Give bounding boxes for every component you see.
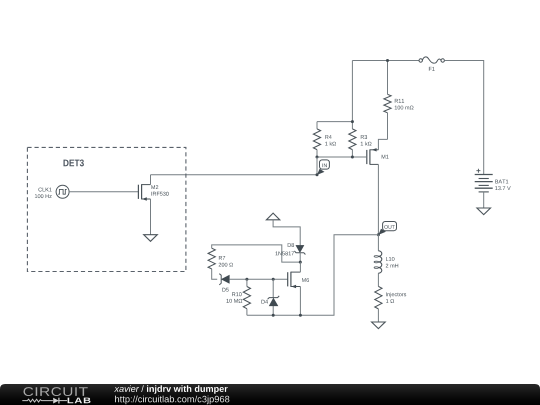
transistor M1 (PMOS): [367, 148, 379, 165]
label IRF530: [151, 192, 168, 196]
logo diode symbol: [53, 398, 59, 404]
logo text CIRCUIT: [24, 387, 88, 396]
node: D4 top: [272, 278, 275, 281]
label 1 kOhm (R3): [361, 142, 372, 146]
label Injectors: [386, 292, 406, 297]
label 1 Ohm: [386, 299, 394, 303]
label M6: [302, 278, 309, 282]
label R11: [395, 99, 404, 103]
wire: injectors to ground: [377, 309, 379, 322]
label M2: [151, 185, 158, 189]
diode D4 (zener): [268, 296, 280, 306]
label L10: [386, 257, 395, 261]
wire: R4/R3 bottom rail to M1 gate: [317, 156, 367, 158]
label 2 mH: [386, 264, 398, 268]
label IN: [323, 164, 327, 168]
wire: R7 bottom to D5: [212, 269, 218, 279]
resistor R11: [384, 94, 391, 113]
label R10: [232, 292, 241, 296]
diode D8 (1N5817 Schottky): [294, 245, 305, 254]
diode D4 leads: [272, 279, 274, 315]
transistor M6 (NMOS): [288, 272, 301, 289]
flag IN: [317, 160, 329, 175]
label R4: [325, 135, 331, 139]
node: OUT: [377, 233, 380, 236]
resistor R10 leads: [246, 279, 248, 315]
node: M6 source bottom: [299, 314, 302, 317]
label 1 kOhm (R4): [325, 142, 336, 146]
wire: M2 source down: [150, 199, 152, 235]
wire: power flag to D8 anode: [273, 220, 300, 246]
resistor R4: [313, 129, 320, 150]
label DET3: [64, 160, 84, 167]
node: D4 bottom: [272, 314, 275, 317]
wire: D5 anode to M6 gate: [229, 278, 287, 280]
node: D8/M6/R7 junction: [299, 261, 302, 264]
fuse F1: [419, 57, 444, 63]
wire: M6 source down: [299, 287, 301, 316]
transistor M2 (NMOS IRF530): [138, 184, 150, 201]
node: top rail junction at R11: [386, 59, 389, 62]
resistor R4 leads: [316, 122, 318, 157]
node: R3 top junction: [351, 120, 354, 123]
wire: M2 drain to IN node: [151, 174, 318, 176]
ground (battery): [477, 208, 491, 215]
footer url: [115, 396, 229, 405]
wire: R4/R3 top rail: [317, 121, 352, 123]
wire: M6 drain up: [299, 262, 301, 272]
node: R4 bottom: [316, 156, 319, 159]
label BAT1: [495, 180, 508, 184]
resistor R3 leads: [351, 122, 353, 157]
wire: riser from R3 top to top rail: [351, 61, 353, 122]
resistor R11 leads: [387, 61, 389, 140]
wire: D8 cathode to M6 node: [299, 253, 301, 262]
resistor R3: [349, 129, 356, 150]
node: IN: [316, 173, 319, 176]
wire: top rail from R4/R3 riser to fuse F1: [352, 60, 419, 62]
ground (injectors): [372, 322, 386, 329]
wire: M2 drain up: [150, 175, 152, 185]
logo text LAB: [68, 398, 91, 404]
DET3 dashed box: [27, 147, 186, 271]
node: R10 top: [245, 278, 248, 281]
wire: IN riser: [316, 157, 318, 175]
power flag (up triangle): [266, 213, 279, 220]
wire: CLK1 to M2 gate: [69, 191, 138, 193]
label 200 Ohm: [219, 263, 233, 267]
label R7: [219, 256, 225, 260]
label 100 Hz: [35, 194, 52, 198]
battery plus sign: [476, 169, 480, 173]
source CLK1: [56, 185, 69, 198]
ground (M2): [144, 235, 158, 242]
wire: R11 to M1 source staircase: [378, 139, 387, 149]
inductor L10 leads: [377, 235, 379, 287]
inductor L10: [374, 251, 382, 273]
wire: M1 drain down to OUT node: [377, 164, 379, 234]
label 10 MOhm: [227, 299, 243, 303]
wire: battery to ground: [483, 192, 485, 208]
label D5: [222, 288, 228, 292]
resistor Injectors: [375, 286, 382, 309]
label M1: [382, 155, 389, 159]
diode D5: [219, 274, 229, 285]
label 1N5817: [276, 252, 295, 256]
label R3: [361, 135, 367, 139]
battery BAT1: [475, 175, 493, 192]
node: R3 bottom: [351, 156, 354, 159]
flag OUT: [378, 222, 396, 235]
label D4: [262, 300, 268, 304]
wire: R7 top to M6 node: [212, 245, 301, 262]
label 100 mOhm: [395, 106, 414, 110]
resistor R10: [243, 287, 250, 309]
wire: bottom rail and OUT return: [247, 235, 379, 316]
label OUT: [384, 225, 395, 229]
wire: fuse to battery top: [444, 61, 483, 175]
label F1: [429, 67, 435, 71]
label CLK1: [38, 188, 51, 192]
label D8: [288, 243, 294, 247]
logo resistor symbol: [22, 399, 53, 402]
footer title: xavier / injdrv with dumper: [114, 385, 228, 394]
resistor R7: [208, 248, 215, 269]
label 13.7 V: [495, 186, 511, 190]
